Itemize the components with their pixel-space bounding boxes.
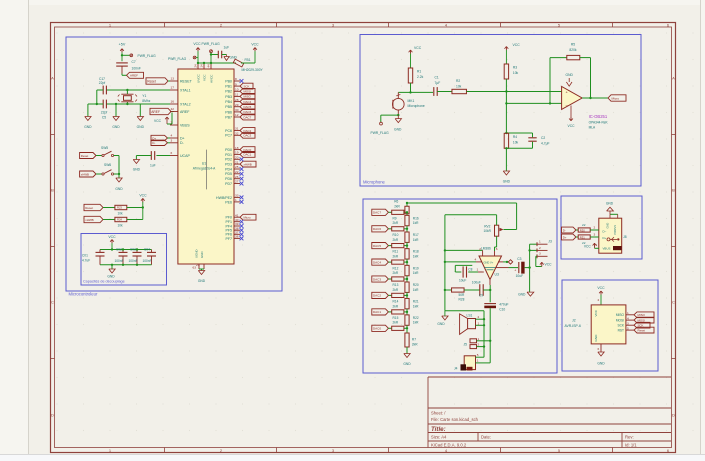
svg-text:16: 16 <box>171 100 175 104</box>
svg-text:C04: C04 <box>144 248 150 252</box>
svg-text:36: 36 <box>235 235 239 239</box>
svg-text:R17: R17 <box>413 233 419 237</box>
svg-text:SW5: SW5 <box>101 146 108 150</box>
svg-text:41: 41 <box>235 213 239 217</box>
svg-text:VCC: VCC <box>251 43 259 47</box>
svg-text:100nF: 100nF <box>115 259 124 263</box>
svg-text:VBUS: VBUS <box>180 123 190 127</box>
svg-text:R14: R14 <box>393 299 399 303</box>
svg-text:Rev:: Rev: <box>625 435 634 440</box>
svg-text:6: 6 <box>496 247 498 251</box>
svg-text:1: 1 <box>235 198 237 202</box>
svg-text:PC7: PC7 <box>225 134 232 138</box>
svg-text:PB5: PB5 <box>225 105 232 109</box>
svg-text:A: A <box>672 76 675 81</box>
svg-text:UGND: UGND <box>195 249 199 258</box>
svg-text:Microphone: Microphone <box>363 179 386 184</box>
svg-text:R13: R13 <box>393 283 399 287</box>
svg-text:10kR: 10kR <box>484 229 492 233</box>
svg-text:R9: R9 <box>393 216 397 220</box>
svg-text:SCK: SCK <box>617 324 624 328</box>
svg-text:OPA344-ReK: OPA344-ReK <box>589 120 609 124</box>
svg-text:LS1: LS1 <box>467 314 473 318</box>
svg-text:J5: J5 <box>464 342 468 346</box>
svg-text:PF0: PF0 <box>225 216 232 220</box>
svg-text:C1: C1 <box>435 75 439 79</box>
svg-text:GND: GND <box>503 180 511 184</box>
svg-text:22pf: 22pf <box>99 81 106 85</box>
svg-text:R19: R19 <box>413 266 419 270</box>
svg-text:30: 30 <box>235 108 239 112</box>
svg-text:10k: 10k <box>118 223 124 227</box>
svg-text:PWR_FLAG: PWR_FLAG <box>371 131 390 135</box>
svg-text:Reset: Reset <box>147 79 156 83</box>
svg-text:22: 22 <box>235 170 239 174</box>
svg-text:2.2k: 2.2k <box>417 75 424 79</box>
svg-text:xHWB: xHWB <box>244 162 252 166</box>
svg-text:10k: 10k <box>118 211 124 215</box>
svg-text:Reset: Reset <box>85 206 93 210</box>
svg-text:470uF: 470uF <box>499 303 508 307</box>
svg-text:50R: 50R <box>459 293 466 297</box>
svg-text:100uF: 100uF <box>472 281 481 285</box>
svg-text:4,7μF: 4,7μF <box>541 141 550 145</box>
svg-text:R18: R18 <box>413 250 419 254</box>
svg-text:GND: GND <box>394 128 402 132</box>
svg-text:MOSI: MOSI <box>244 90 252 94</box>
svg-text:PD4: PD4 <box>225 167 232 171</box>
svg-text:GND: GND <box>84 125 92 129</box>
svg-text:PB6: PB6 <box>225 110 232 114</box>
svg-text:5: 5 <box>477 353 479 357</box>
svg-text:D-: D- <box>563 228 566 232</box>
svg-text:PB2: PB2 <box>225 90 232 94</box>
svg-text:1: 1 <box>478 337 480 341</box>
svg-text:C8: C8 <box>468 268 472 272</box>
svg-text:820k: 820k <box>569 48 577 52</box>
svg-text:J8: J8 <box>623 235 627 239</box>
svg-text:1kR: 1kR <box>413 271 419 275</box>
svg-text:R6: R6 <box>394 200 398 204</box>
svg-text:D+: D+ <box>180 136 185 140</box>
svg-text:DAC7: DAC7 <box>244 115 252 119</box>
svg-text:20: 20 <box>235 156 239 160</box>
svg-text:D−: D− <box>603 230 607 234</box>
svg-text:D-: D- <box>152 141 155 145</box>
svg-text:PD5: PD5 <box>225 172 232 176</box>
svg-text:R11: R11 <box>393 250 399 254</box>
svg-text:AREF: AREF <box>130 74 138 78</box>
svg-text:VCC: VCC <box>108 235 116 239</box>
svg-text:27: 27 <box>235 180 239 184</box>
svg-text:DAC1: DAC1 <box>244 153 252 157</box>
svg-text:PB3: PB3 <box>225 95 232 99</box>
svg-text:UCAP: UCAP <box>180 154 190 158</box>
svg-text:VCC: VCC <box>139 194 147 198</box>
svg-text:R16: R16 <box>413 216 419 220</box>
svg-text:2kR: 2kR <box>412 342 418 346</box>
svg-text:KiCad E.D.A. 9.0.2: KiCad E.D.A. 9.0.2 <box>431 442 467 447</box>
svg-text:A: A <box>51 76 54 81</box>
svg-text:PWRVS: PWRVS <box>613 225 617 235</box>
svg-text:14: 14 <box>200 64 204 68</box>
svg-text:Reset: Reset <box>81 154 89 158</box>
svg-text:AREF: AREF <box>180 110 190 114</box>
svg-text:1kR: 1kR <box>413 238 419 242</box>
svg-text:DAC0: DAC0 <box>373 327 381 331</box>
svg-text:xHWB: xHWB <box>81 172 89 176</box>
svg-text:J3: J3 <box>548 239 552 243</box>
svg-text:MH2029-300Y: MH2029-300Y <box>242 68 264 72</box>
svg-text:MISO: MISO <box>244 95 252 99</box>
svg-text:100nF: 100nF <box>132 67 141 71</box>
svg-text:25: 25 <box>235 165 239 169</box>
svg-text:VCC: VCC <box>193 42 201 46</box>
svg-text:VBUS: VBUS <box>603 246 611 250</box>
svg-text:19: 19 <box>235 151 239 155</box>
svg-text:D+: D+ <box>603 236 607 240</box>
svg-text:GND: GND <box>137 125 145 129</box>
svg-text:33: 33 <box>235 194 239 198</box>
svg-text:PB4: PB4 <box>225 100 232 104</box>
svg-text:MISO: MISO <box>638 313 646 317</box>
svg-text:GND: GND <box>403 362 411 366</box>
svg-text:PD1: PD1 <box>225 153 232 157</box>
svg-text:4: 4 <box>475 257 477 261</box>
svg-text:MK1: MK1 <box>408 99 415 103</box>
svg-text:2kR: 2kR <box>393 271 399 275</box>
svg-text:12: 12 <box>235 113 239 117</box>
svg-text:DAC5: DAC5 <box>373 244 381 248</box>
svg-text:IC-OB251: IC-OB251 <box>589 114 608 119</box>
svg-text:R15: R15 <box>393 316 399 320</box>
svg-text:8: 8 <box>235 77 237 81</box>
svg-text:C10: C10 <box>499 308 505 312</box>
svg-text:44: 44 <box>207 64 211 68</box>
svg-text:Microphone: Microphone <box>408 104 425 108</box>
svg-text:R4: R4 <box>513 135 517 139</box>
svg-text:1kR: 1kR <box>413 221 419 225</box>
svg-text:C17: C17 <box>99 77 105 81</box>
svg-text:AREF: AREF <box>151 110 160 114</box>
svg-text:10uF: 10uF <box>516 274 524 278</box>
svg-text:22: 22 <box>582 223 586 227</box>
svg-text:1kR: 1kR <box>413 304 419 308</box>
svg-text:VCC: VCC <box>202 74 206 81</box>
svg-text:2: 2 <box>539 246 541 250</box>
svg-text:1: 1 <box>478 321 480 325</box>
svg-text:4.7uF: 4.7uF <box>82 259 90 263</box>
svg-text:AVCC: AVCC <box>209 74 213 83</box>
svg-text:XTAL2: XTAL2 <box>180 102 191 106</box>
svg-text:PD7: PD7 <box>225 182 232 186</box>
svg-text:MOSI: MOSI <box>616 318 624 322</box>
svg-text:6: 6 <box>598 347 600 351</box>
svg-text:VCC: VCC <box>414 46 422 50</box>
svg-text:C9: C9 <box>479 294 483 298</box>
svg-text:PWR_FLAG: PWR_FLAG <box>138 54 157 58</box>
svg-text:R5: R5 <box>571 42 575 46</box>
svg-text:xHWB: xHWB <box>85 218 94 222</box>
svg-text:GND: GND <box>200 252 204 258</box>
svg-text:42: 42 <box>171 107 175 111</box>
svg-text:1: 1 <box>596 243 598 247</box>
svg-text:LM386: LM386 <box>481 247 491 251</box>
svg-text:PB1: PB1 <box>225 85 232 89</box>
svg-text:RST: RST <box>618 328 624 332</box>
svg-text:GND: GND <box>605 223 609 229</box>
svg-text:SCK: SCK <box>244 84 250 88</box>
svg-text:Micro: Micro <box>244 216 251 220</box>
svg-text:R20: R20 <box>413 283 419 287</box>
svg-text:PB7: PB7 <box>225 115 232 119</box>
svg-text:PD6: PD6 <box>225 177 232 181</box>
svg-text:GND: GND <box>437 322 445 326</box>
svg-text:Microcontroleur: Microcontroleur <box>69 292 98 297</box>
svg-text:+5V: +5V <box>119 42 126 46</box>
svg-text:XTAL1: XTAL1 <box>180 88 191 92</box>
svg-text:13: 13 <box>171 77 175 81</box>
svg-text:VCC: VCC <box>594 309 598 316</box>
svg-text:R1: R1 <box>417 70 421 74</box>
svg-text:FB1: FB1 <box>245 58 251 62</box>
svg-text:C: C <box>51 300 54 305</box>
svg-text:R30: R30 <box>580 228 585 232</box>
svg-text:File: Carte son.kicad_sch: File: Carte son.kicad_sch <box>431 417 479 422</box>
svg-text:C3: C3 <box>517 257 521 261</box>
svg-text:R23: R23 <box>117 206 122 210</box>
svg-text:2kR: 2kR <box>393 238 399 242</box>
svg-text:DAC5: DAC5 <box>244 105 252 109</box>
svg-text:J4: J4 <box>454 366 458 370</box>
svg-text:PB0: PB0 <box>225 79 232 83</box>
svg-text:1kR: 1kR <box>413 254 419 258</box>
svg-text:3: 3 <box>627 321 629 325</box>
svg-text:1kR: 1kR <box>413 288 419 292</box>
svg-text:GND: GND <box>606 202 614 206</box>
svg-text:R24: R24 <box>117 218 122 222</box>
svg-text:ATmega32U4-A: ATmega32U4-A <box>193 167 216 171</box>
svg-text:2: 2 <box>478 315 480 319</box>
svg-text:R10: R10 <box>393 233 399 237</box>
svg-text:4: 4 <box>627 316 629 320</box>
svg-text:2kR: 2kR <box>393 304 399 308</box>
svg-text:GND: GND <box>115 187 123 191</box>
svg-text:DAC3: DAC3 <box>244 134 252 138</box>
svg-text:7: 7 <box>171 121 173 125</box>
svg-text:PWR_FLAG: PWR_FLAG <box>202 42 221 46</box>
svg-text:U3: U3 <box>495 272 499 276</box>
svg-text:2kR: 2kR <box>393 221 399 225</box>
svg-text:PE6: PE6 <box>225 200 232 204</box>
svg-text:PC6: PC6 <box>225 129 232 133</box>
svg-text:10k: 10k <box>513 140 519 144</box>
svg-text:2: 2 <box>598 298 600 302</box>
svg-text:C2: C2 <box>541 136 545 140</box>
svg-text:2kR: 2kR <box>394 204 400 208</box>
svg-text:MISO: MISO <box>616 313 625 317</box>
svg-text:5: 5 <box>627 326 629 330</box>
svg-text:R3: R3 <box>513 66 517 70</box>
svg-text:2: 2 <box>594 226 596 230</box>
svg-text:C02: C02 <box>116 248 122 252</box>
svg-text:1uF: 1uF <box>224 46 230 50</box>
svg-text:PD2: PD2 <box>225 158 232 162</box>
svg-text:1: 1 <box>539 240 541 244</box>
svg-text:3: 3 <box>594 233 596 237</box>
svg-text:31: 31 <box>235 127 239 131</box>
svg-text:1: 1 <box>627 311 629 315</box>
svg-text:D: D <box>672 413 675 418</box>
svg-text:PD3: PD3 <box>225 163 232 167</box>
svg-text:3: 3 <box>171 139 173 143</box>
svg-text:Capacités de découplage: Capacités de découplage <box>83 280 125 284</box>
svg-text:2kR: 2kR <box>393 288 399 292</box>
svg-text:9: 9 <box>235 82 237 86</box>
svg-text:B: B <box>672 188 675 193</box>
svg-text:C5: C5 <box>102 115 106 119</box>
svg-text:RESET: RESET <box>180 79 193 83</box>
svg-text:10k: 10k <box>456 84 462 88</box>
svg-text:D: D <box>51 413 54 418</box>
svg-text:MOSI: MOSI <box>638 318 646 322</box>
svg-text:18: 18 <box>235 146 239 150</box>
svg-text:8Mhz: 8Mhz <box>142 99 150 103</box>
svg-text:R7: R7 <box>412 338 416 342</box>
svg-text:C: C <box>672 300 675 305</box>
svg-text:R31: R31 <box>580 235 585 239</box>
svg-text:MLA: MLA <box>589 125 596 129</box>
svg-text:1: 1 <box>477 359 479 363</box>
svg-text:1: 1 <box>477 268 479 272</box>
svg-text:GND: GND <box>597 362 605 366</box>
svg-text:GND: GND <box>594 334 598 342</box>
svg-text:17: 17 <box>171 86 175 90</box>
svg-text:Reset: Reset <box>638 328 646 332</box>
svg-text:DAC3: DAC3 <box>373 277 381 281</box>
svg-text:DAC6: DAC6 <box>244 110 252 114</box>
svg-text:28: 28 <box>235 98 239 102</box>
svg-text:D+: D+ <box>563 235 567 239</box>
svg-text:GND: GND <box>107 275 115 279</box>
svg-text:C01: C01 <box>82 253 88 257</box>
svg-text:26: 26 <box>235 175 239 179</box>
svg-text:PWR_FLAG: PWR_FLAG <box>168 57 187 61</box>
svg-text:+: + <box>514 269 516 273</box>
svg-text:3: 3 <box>539 252 541 256</box>
svg-text:DAC7: DAC7 <box>373 211 381 215</box>
svg-text:Date:: Date: <box>481 435 491 440</box>
svg-text:DAC1: DAC1 <box>373 310 381 314</box>
svg-text:1kR: 1kR <box>413 321 419 325</box>
svg-text:GND: GND <box>518 292 526 296</box>
svg-text:DAC4: DAC4 <box>373 260 381 264</box>
svg-text:Micro: Micro <box>612 96 620 100</box>
svg-text:GND: GND <box>112 125 120 129</box>
svg-text:R21: R21 <box>413 299 419 303</box>
svg-text:U1: U1 <box>202 161 207 165</box>
svg-text:R2: R2 <box>456 79 460 83</box>
svg-text:Size: A4: Size: A4 <box>431 435 447 440</box>
svg-text:PD0: PD0 <box>225 148 232 152</box>
svg-text:23: 23 <box>196 263 200 267</box>
svg-text:4: 4 <box>171 134 173 138</box>
svg-text:VCC: VCC <box>584 244 592 248</box>
svg-text:HWB/PE2: HWB/PE2 <box>216 196 232 200</box>
svg-text:Y1: Y1 <box>142 94 146 98</box>
svg-text:24: 24 <box>194 64 198 68</box>
svg-text:UVCC: UVCC <box>196 73 200 83</box>
svg-text:29: 29 <box>235 103 239 107</box>
svg-text:C7: C7 <box>132 60 136 64</box>
svg-text:11: 11 <box>235 93 238 97</box>
svg-text:Id: 1/1: Id: 1/1 <box>625 442 637 447</box>
svg-text:10k: 10k <box>513 71 519 75</box>
svg-text:Sheet: /: Sheet: / <box>431 411 446 416</box>
svg-text:VCC: VCC <box>597 286 605 290</box>
svg-text:21: 21 <box>235 160 239 164</box>
svg-text:1uF: 1uF <box>150 164 156 168</box>
svg-text:R12: R12 <box>393 266 399 270</box>
svg-text:PF7: PF7 <box>225 237 232 241</box>
svg-text:10: 10 <box>235 88 239 92</box>
svg-text:VCC: VCC <box>513 43 521 47</box>
svg-text:GND V+: GND V+ <box>484 260 494 264</box>
svg-text:DAC6: DAC6 <box>373 227 381 231</box>
svg-text:VCC: VCC <box>154 119 162 123</box>
svg-text:GND: GND <box>198 279 206 283</box>
svg-text:B: B <box>51 188 54 193</box>
svg-text:AVR-ISP-6: AVR-ISP-6 <box>565 324 581 328</box>
svg-text:C03: C03 <box>130 248 136 252</box>
svg-text:22pf: 22pf <box>101 111 108 115</box>
svg-text:2: 2 <box>479 247 481 251</box>
svg-text:10uF: 10uF <box>459 278 466 282</box>
svg-text:RV2: RV2 <box>484 224 490 228</box>
svg-text:7μF: 7μF <box>435 81 441 85</box>
svg-text:2kR: 2kR <box>393 321 399 325</box>
svg-text:R22: R22 <box>413 316 419 320</box>
svg-text:GND: GND <box>566 73 574 77</box>
svg-text:2: 2 <box>478 343 480 347</box>
svg-text:GND: GND <box>230 56 238 60</box>
svg-text:2kR: 2kR <box>393 254 399 258</box>
svg-text:6: 6 <box>171 151 173 155</box>
svg-text:GND: GND <box>133 168 141 172</box>
svg-text:VCC: VCC <box>545 262 553 266</box>
svg-text:100nF: 100nF <box>129 259 138 263</box>
svg-text:DAC4: DAC4 <box>244 100 252 104</box>
svg-text:R28: R28 <box>459 298 465 302</box>
svg-text:VCC: VCC <box>568 124 576 128</box>
svg-text:J2: J2 <box>572 318 576 322</box>
svg-text:SW6: SW6 <box>104 163 111 167</box>
svg-text:DAC2: DAC2 <box>373 294 381 298</box>
svg-text:Title:: Title: <box>431 426 446 433</box>
svg-text:32: 32 <box>235 132 239 136</box>
svg-text:100nF: 100nF <box>143 259 152 263</box>
